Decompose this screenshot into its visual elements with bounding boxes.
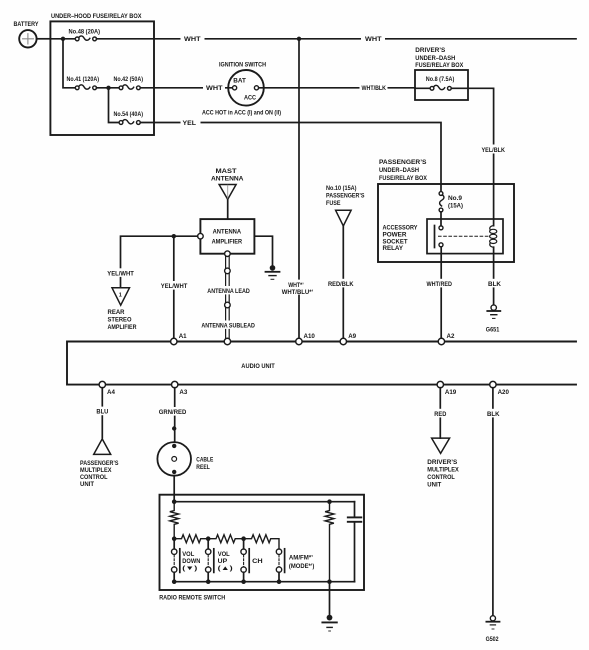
wire bottom bus xyxy=(174,581,354,583)
svg-text:PASSENGER’S: PASSENGER’S xyxy=(326,193,365,200)
cable reel xyxy=(157,442,213,476)
svg-text:STEREO: STEREO xyxy=(108,317,132,324)
fuse No.42 (50A) xyxy=(114,76,144,90)
label ANTENNA SUBLEAD xyxy=(200,321,257,330)
wire battery to box xyxy=(37,38,51,40)
svg-text:FUSE/RELAY BOX: FUSE/RELAY BOX xyxy=(379,175,427,182)
svg-text:MULTIPLEX: MULTIPLEX xyxy=(80,467,112,474)
antenna amplifier xyxy=(198,219,255,256)
passenger's multiplex control unit xyxy=(80,439,119,488)
svg-text:ANTENNA LEAD: ANTENNA LEAD xyxy=(207,288,250,295)
label WHT/BLK xyxy=(360,83,388,92)
wire YEL xyxy=(140,123,441,194)
node top bus junction xyxy=(172,499,177,504)
svg-text:MAST: MAST xyxy=(216,168,237,175)
driver's under-dash fuse/relay box xyxy=(415,47,468,100)
label BLU xyxy=(95,407,110,416)
wire BLK A20 branch xyxy=(492,388,494,616)
svg-text:A19: A19 xyxy=(445,389,457,396)
label BLK xyxy=(487,279,503,288)
wire to ground xyxy=(329,582,331,615)
svg-text:BLK: BLK xyxy=(488,281,501,288)
svg-text:No.9: No.9 xyxy=(448,195,463,202)
svg-text:(15A): (15A) xyxy=(448,202,463,209)
svg-text:WHT: WHT xyxy=(365,36,382,43)
node fuse junction xyxy=(106,86,110,90)
label BLK xyxy=(486,409,502,418)
svg-text:AMPLIFIER: AMPLIFIER xyxy=(212,239,243,246)
resistor R1 (horizontal) xyxy=(174,535,208,543)
svg-text:No.42 (50A): No.42 (50A) xyxy=(114,76,144,83)
svg-text:BAT: BAT xyxy=(233,78,246,85)
svg-text:UNIT: UNIT xyxy=(80,481,94,488)
svg-text:(▼): (▼) xyxy=(182,565,197,572)
wire GRN/RED A3 branch xyxy=(174,388,176,442)
svg-text:WHT: WHT xyxy=(206,85,223,92)
label YEL/WHT xyxy=(106,268,135,277)
svg-text:G502: G502 xyxy=(486,636,499,643)
svg-text:AM/FM*ʼ: AM/FM*ʼ xyxy=(289,555,313,562)
svg-text:WHT/BLK: WHT/BLK xyxy=(362,85,387,92)
label YEL xyxy=(181,118,201,127)
ground (radio remote switch) xyxy=(322,615,336,631)
node resistor junction xyxy=(327,499,332,504)
wire YEL/BLK xyxy=(451,88,493,225)
ground (antenna amplifier) xyxy=(266,265,280,279)
svg-text:G651: G651 xyxy=(486,326,500,333)
pin antenna sublead xyxy=(224,338,230,344)
pin A20 xyxy=(490,381,496,387)
wire WHT top row xyxy=(97,38,577,40)
node bottom junctions xyxy=(172,579,177,584)
svg-text:DOWN: DOWN xyxy=(182,558,200,565)
wire BLK coil to G651 xyxy=(493,247,495,305)
svg-text:IGNITION SWITCH: IGNITION SWITCH xyxy=(219,61,266,68)
svg-text:GRN/RED: GRN/RED xyxy=(159,409,187,416)
svg-text:No.8 (7.5A): No.8 (7.5A) xyxy=(426,76,455,83)
ground G502 xyxy=(486,616,500,644)
svg-text:VOL: VOL xyxy=(218,551,230,558)
svg-text:BATTERY: BATTERY xyxy=(14,21,39,28)
wire top bus xyxy=(174,501,354,503)
svg-text:PASSENGER’S: PASSENGER’S xyxy=(80,460,119,467)
svg-text:UP: UP xyxy=(218,558,228,565)
svg-text:UNDER–HOOD FUSE/RELAY BOX: UNDER–HOOD FUSE/RELAY BOX xyxy=(51,13,142,20)
wire amp right to ground xyxy=(254,236,272,265)
wire YEL/WHT amp left xyxy=(121,236,198,287)
resistor R2 (horizontal) xyxy=(208,535,243,543)
fuse No.10 passenger's fuse xyxy=(326,185,365,226)
audio unit xyxy=(67,342,576,385)
svg-text:RED: RED xyxy=(434,411,446,418)
resistor R3 (horizontal) xyxy=(244,535,279,549)
label WHT xyxy=(181,34,205,43)
svg-text:A10: A10 xyxy=(304,333,316,340)
switch AM/FM (MODE) xyxy=(276,549,314,582)
node switch3 junction xyxy=(241,536,246,541)
wire WHT to ignition switch xyxy=(140,87,232,89)
svg-text:(▲): (▲) xyxy=(218,565,233,572)
label YEL/WHT xyxy=(160,281,189,290)
wire WHT/RED relay to A2 xyxy=(440,247,442,342)
svg-text:ANTENNA SUBLEAD: ANTENNA SUBLEAD xyxy=(201,322,255,329)
label YEL/BLK xyxy=(481,145,507,154)
svg-text:CABLE: CABLE xyxy=(196,457,213,464)
rear stereo amplifier xyxy=(108,288,137,331)
svg-text:YEL/BLK: YEL/BLK xyxy=(482,147,506,154)
node switch2 junction xyxy=(206,536,211,541)
svg-text:AMPLIFIER: AMPLIFIER xyxy=(108,324,137,331)
svg-text:FUSE/RELAY BOX: FUSE/RELAY BOX xyxy=(415,62,463,69)
svg-text:WHT/RED: WHT/RED xyxy=(427,281,453,288)
switch VOL DOWN xyxy=(172,539,201,582)
svg-text:CH: CH xyxy=(252,558,263,565)
svg-text:PASSENGER’S: PASSENGER’S xyxy=(379,159,427,166)
svg-text:FUSE: FUSE xyxy=(326,200,341,207)
accessory power socket relay xyxy=(383,196,504,254)
svg-text:CONTROL: CONTROL xyxy=(80,474,108,481)
svg-text:A20: A20 xyxy=(498,389,510,396)
svg-text:A1: A1 xyxy=(179,333,187,340)
fuse No.41 (120A) xyxy=(67,76,100,90)
svg-text:CONTROL: CONTROL xyxy=(427,474,455,481)
pin A9 xyxy=(340,338,346,344)
pin A4 xyxy=(99,381,105,387)
ground G651 xyxy=(486,305,501,333)
pin A19 xyxy=(437,381,443,387)
node resistor bus junction xyxy=(172,536,177,541)
ignition switch xyxy=(202,61,281,116)
switch CH xyxy=(241,539,263,582)
wire reel to remote switch xyxy=(173,476,175,502)
battery xyxy=(14,21,39,48)
relay coil xyxy=(490,226,497,248)
node WHT junction xyxy=(297,37,301,41)
svg-text:A3: A3 xyxy=(179,389,187,396)
under-hood fuse/relay box xyxy=(50,21,154,135)
svg-text:No.54 (40A): No.54 (40A) xyxy=(114,111,144,118)
pin A2 xyxy=(438,338,444,344)
fuse No.48 (20A) xyxy=(50,28,100,40)
label WHT xyxy=(203,83,225,92)
svg-text:RADIO REMOTE SWITCH: RADIO REMOTE SWITCH xyxy=(159,594,225,601)
radio remote switch box xyxy=(159,495,364,602)
switch VOL UP xyxy=(206,539,233,582)
svg-text:UNIT: UNIT xyxy=(427,481,441,488)
label WHT* / WHT/BLU* xyxy=(281,280,315,296)
svg-text:AUDIO UNIT: AUDIO UNIT xyxy=(241,363,274,370)
fuse No.9 (15A) xyxy=(439,192,463,212)
svg-text:ANTENNA: ANTENNA xyxy=(213,228,242,235)
antenna lead coax xyxy=(225,257,231,339)
pin A10 xyxy=(296,338,302,344)
node battery feed junction xyxy=(61,37,65,41)
svg-text:ACC: ACC xyxy=(244,95,256,102)
svg-text:MULTIPLEX: MULTIPLEX xyxy=(427,467,459,474)
svg-text:WHT: WHT xyxy=(184,36,201,43)
svg-text:VOL: VOL xyxy=(182,551,194,558)
wire fuse9 to relay contact xyxy=(440,212,442,226)
passenger's under-dash fuse/relay box xyxy=(378,159,514,262)
label WHT/RED xyxy=(426,279,455,288)
pin A1 xyxy=(171,338,177,344)
svg-text:BLK: BLK xyxy=(487,411,500,418)
wire BLU A4 branch xyxy=(101,388,103,438)
resistor R-right (vertical) xyxy=(325,502,334,582)
driver's multiplex control unit xyxy=(427,438,459,488)
svg-text:ACC HOT in ACC (I) and ON (II): ACC HOT in ACC (I) and ON (II) xyxy=(202,110,281,117)
svg-text:BLU: BLU xyxy=(96,409,108,416)
svg-text:REAR: REAR xyxy=(108,309,126,316)
svg-text:1: 1 xyxy=(119,293,122,299)
node cable reel junction xyxy=(172,426,176,430)
svg-text:RELAY: RELAY xyxy=(383,245,404,252)
wire battery branch down xyxy=(63,39,75,88)
fuse No.54 (40A) xyxy=(114,111,144,125)
svg-text:DRIVER’S: DRIVER’S xyxy=(415,47,446,54)
pin A3 xyxy=(172,381,178,387)
wire WHT/BLK ignition to driver's box xyxy=(259,87,415,89)
fuse No.8 (7.5A) xyxy=(415,76,454,90)
svg-text:ANTENNA: ANTENNA xyxy=(211,176,244,183)
svg-text:(MODE*ʼ): (MODE*ʼ) xyxy=(289,563,315,570)
label ANTENNA LEAD xyxy=(206,286,253,295)
svg-text:No.10 (15A): No.10 (15A) xyxy=(326,185,357,192)
label RED/BLK xyxy=(327,279,356,288)
svg-text:DRIVER’S: DRIVER’S xyxy=(427,459,457,466)
svg-text:A9: A9 xyxy=(348,333,356,340)
svg-text:UNDER–DASH: UNDER–DASH xyxy=(379,167,419,174)
svg-text:No.41 (120A): No.41 (120A) xyxy=(67,76,100,83)
wire YEL/WHT to A1 xyxy=(173,236,175,341)
wire RED/BLK to A9 xyxy=(342,226,344,342)
svg-text:WHT/BLU*ʼ: WHT/BLU*ʼ xyxy=(282,289,314,296)
svg-text:YEL/WHT: YEL/WHT xyxy=(107,270,134,277)
label RED xyxy=(433,409,448,418)
svg-text:YEL: YEL xyxy=(183,120,197,127)
wire branch to fuse54 xyxy=(109,88,120,123)
wire WHT vertical to A10 xyxy=(298,39,300,342)
label WHT (right) xyxy=(361,34,385,43)
node amp junction xyxy=(172,234,176,238)
svg-text:UNDER–DASH: UNDER–DASH xyxy=(415,55,455,62)
svg-text:RED/BLK: RED/BLK xyxy=(328,281,354,288)
label GRN/RED xyxy=(158,407,189,416)
node ground junction xyxy=(327,579,332,584)
svg-text:A4: A4 xyxy=(107,389,115,396)
mast antenna xyxy=(211,168,244,219)
svg-text:REEL: REEL xyxy=(196,464,210,471)
capacitor C1 xyxy=(348,502,362,582)
svg-text:A2: A2 xyxy=(447,333,455,340)
wire fuse41 to fuse42 xyxy=(97,87,120,89)
svg-text:YEL/WHT: YEL/WHT xyxy=(161,283,188,290)
svg-text:No.48 (20A): No.48 (20A) xyxy=(69,28,101,35)
wire RED A19 branch xyxy=(439,388,441,438)
resistor R-left (vertical) xyxy=(170,502,179,539)
